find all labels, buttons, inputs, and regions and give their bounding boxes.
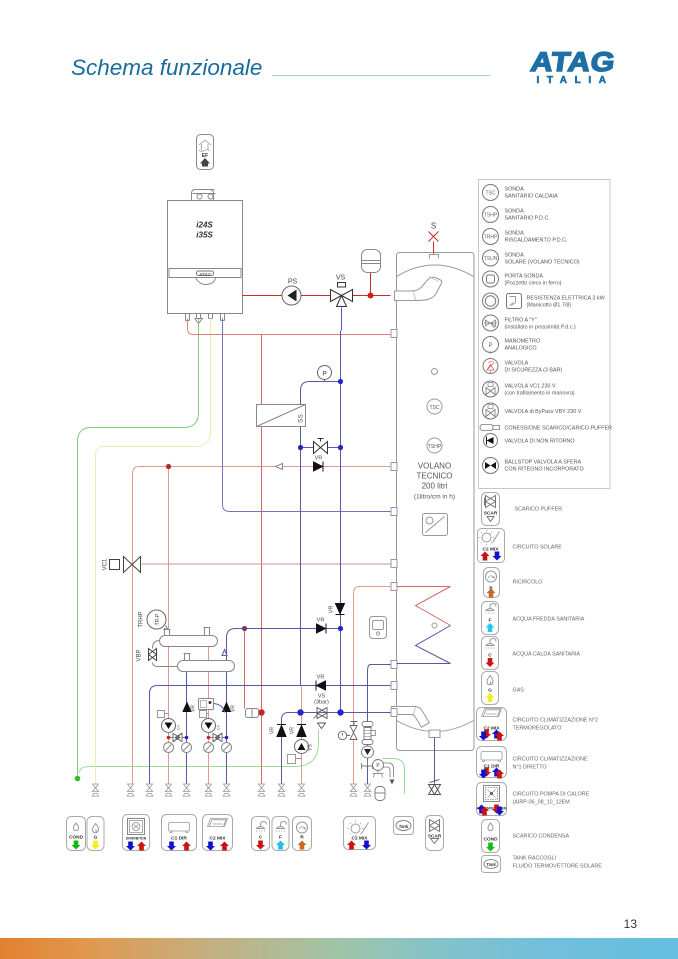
svg-text:TSHP: TSHP [428, 444, 442, 450]
svg-text:COND: COND [69, 835, 84, 841]
svg-text:TRHP: TRHP [139, 611, 145, 627]
svg-text:SANITARIO CALDAIA: SANITARIO CALDAIA [505, 194, 559, 200]
svg-text:(AIRP-06_08_10_12EM: (AIRP-06_08_10_12EM [513, 800, 571, 806]
svg-text:R: R [300, 835, 304, 841]
svg-text:RICIRCOLO: RICIRCOLO [513, 580, 543, 586]
svg-text:ANALOGICO: ANALOGICO [505, 346, 537, 352]
svg-text:TR-P: TR-P [155, 613, 161, 625]
svg-text:VALVOLA VC1 230 V: VALVOLA VC1 230 V [505, 384, 556, 390]
svg-text:P: P [488, 343, 492, 349]
svg-text:CONESSIONE SCARICO/CARICO PUFF: CONESSIONE SCARICO/CARICO PUFFER [505, 426, 613, 432]
svg-text:SONDA: SONDA [505, 187, 525, 193]
svg-text:200 litri: 200 litri [422, 482, 448, 491]
svg-text:SS: SS [298, 414, 305, 423]
svg-text:Tank: Tank [486, 862, 496, 867]
svg-text:CIRCUITO SOLARE: CIRCUITO SOLARE [513, 545, 563, 551]
svg-text:SONDA: SONDA [505, 253, 525, 259]
svg-text:C: C [259, 835, 263, 841]
svg-text:VR: VR [317, 675, 325, 681]
svg-text:VR: VR [329, 606, 335, 614]
svg-text:(3bar): (3bar) [314, 700, 329, 706]
svg-text:CON RITEGNO INCORPORATO: CON RITEGNO INCORPORATO [505, 467, 584, 473]
svg-text:SONDA: SONDA [505, 231, 525, 237]
svg-text:SCAR: SCAR [484, 511, 498, 517]
svg-text:VR: VR [317, 618, 325, 624]
svg-text:SCARICO PUFFER: SCARICO PUFFER [515, 507, 563, 513]
svg-text:VBP: VBP [137, 649, 143, 661]
svg-text:MANOMETRO: MANOMETRO [505, 339, 541, 345]
svg-text:VR: VR [191, 705, 197, 712]
svg-text:P: P [322, 371, 326, 378]
svg-text:G: G [488, 688, 492, 694]
svg-text:SOLARE (VOLANO TECNICO): SOLARE (VOLANO TECNICO) [505, 260, 580, 266]
svg-text:S: S [431, 222, 436, 231]
svg-text:VC1: VC1 [103, 558, 109, 570]
svg-text:(1litro/cm in h): (1litro/cm in h) [414, 494, 455, 501]
svg-text:CIRCUITO CLIMATIZZAZIONE N°2: CIRCUITO CLIMATIZZAZIONE N°2 [513, 718, 599, 724]
svg-text:(Pozzetto cieco in ferro): (Pozzetto cieco in ferro) [505, 281, 562, 287]
svg-text:ACQUA CALDA SANITARIA: ACQUA CALDA SANITARIA [513, 652, 581, 658]
svg-text:RISCALDAMENTO P.D.C.: RISCALDAMENTO P.D.C. [505, 238, 568, 244]
svg-text:FLUIDO TERMOVETTORE SOLARE: FLUIDO TERMOVETTORE SOLARE [513, 864, 603, 870]
svg-text:FILTRO A "Y": FILTRO A "Y" [505, 318, 537, 324]
svg-text:VR: VR [270, 727, 276, 734]
svg-text:F: F [279, 835, 282, 841]
svg-text:TSUN: TSUN [484, 256, 498, 262]
svg-text:(Manicotto Ø1 7/8): (Manicotto Ø1 7/8) [527, 303, 572, 309]
svg-text:i35S: i35S [196, 231, 213, 240]
svg-text:CIRCUITO POMPA DI CALORE: CIRCUITO POMPA DI CALORE [513, 792, 590, 798]
svg-text:TSC: TSC [486, 191, 496, 197]
svg-text:C2: C2 [216, 724, 221, 730]
svg-text:ATAG: ATAG [198, 272, 212, 277]
svg-text:G: G [94, 835, 98, 841]
svg-text:VR: VR [315, 456, 323, 462]
svg-text:VR: VR [290, 727, 296, 734]
svg-text:TSC: TSC [430, 405, 440, 411]
svg-text:GAS: GAS [513, 688, 525, 694]
svg-text:VR: VR [231, 705, 237, 712]
svg-text:C2 MIX: C2 MIX [210, 836, 227, 842]
svg-text:PS: PS [288, 279, 298, 286]
svg-text:DN/W/B/TDN: DN/W/B/TDN [126, 837, 147, 841]
svg-text:(installato in prossimità P.d.: (installato in prossimità P.d.c.) [505, 325, 576, 331]
svg-text:Tank: Tank [399, 824, 409, 829]
svg-text:SCAR: SCAR [428, 834, 442, 840]
svg-text:VOLANO: VOLANO [418, 462, 451, 471]
svg-text:BALLSTOP VALVOLA A SFERA: BALLSTOP VALVOLA A SFERA [505, 460, 582, 466]
svg-text:SCARICO CONDENSA: SCARICO CONDENSA [513, 834, 570, 840]
svg-text:F: F [489, 618, 492, 624]
svg-text:VS: VS [336, 275, 346, 282]
svg-text:VALVOLA: VALVOLA [505, 361, 529, 367]
svg-text:SONDA: SONDA [505, 209, 525, 215]
svg-text:C1 DIR: C1 DIR [171, 836, 187, 842]
svg-text:CIRCUITO CLIMATIZZAZIONE: CIRCUITO CLIMATIZZAZIONE [513, 757, 588, 763]
svg-text:TANK RACCOGLI: TANK RACCOGLI [513, 856, 557, 862]
svg-text:N°1 DIRETTO: N°1 DIRETTO [513, 765, 547, 771]
svg-text:TRHP: TRHP [484, 235, 498, 241]
svg-text:i24S: i24S [196, 221, 213, 230]
svg-text:ACQUA FREDDA SANITARIA: ACQUA FREDDA SANITARIA [513, 617, 585, 623]
svg-text:SANITARIO P.D.C.: SANITARIO P.D.C. [505, 216, 550, 222]
svg-text:TSHP: TSHP [484, 213, 498, 219]
svg-text:C: C [488, 653, 492, 659]
svg-text:VALVOLA di ByPass VBY 230 V: VALVOLA di ByPass VBY 230 V [505, 409, 582, 415]
svg-text:DI SICUREZZA (3 BAR): DI SICUREZZA (3 BAR) [505, 368, 563, 374]
svg-text:(con trafilamento in manovra): (con trafilamento in manovra) [505, 391, 575, 397]
svg-text:COND: COND [483, 837, 498, 843]
svg-text:VALVOLA DI NON RITORNO: VALVOLA DI NON RITORNO [505, 439, 575, 445]
svg-text:PORTA SONDA: PORTA SONDA [505, 274, 544, 280]
svg-text:C1: C1 [176, 724, 181, 730]
svg-text:TECNICO: TECNICO [417, 472, 453, 481]
svg-text:RESISTENZA ELETTRICA 3 kW: RESISTENZA ELETTRICA 3 kW [527, 296, 606, 302]
svg-text:TERMOREGOLATO: TERMOREGOLATO [513, 726, 562, 732]
svg-text:EF: EF [202, 153, 208, 159]
svg-text:VS: VS [308, 744, 314, 751]
